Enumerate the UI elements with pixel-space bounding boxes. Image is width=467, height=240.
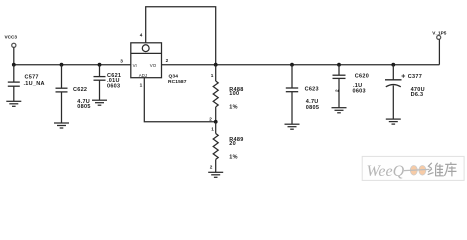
svg-text:20: 20	[229, 141, 236, 147]
capacitor C621	[94, 65, 106, 100]
wire input rail	[14, 64, 131, 66]
node junction at C377	[391, 63, 395, 67]
svg-text:ADJ: ADJ	[139, 73, 147, 78]
svg-text:1: 1	[211, 126, 214, 131]
ground (C623)	[285, 124, 300, 129]
ground (R489)	[208, 172, 223, 177]
svg-text:1: 1	[211, 73, 214, 78]
node junction at C621	[98, 63, 102, 67]
ground (C622)	[54, 123, 69, 128]
C377 plus sign	[402, 74, 406, 78]
op-amp/regulator Q34 RC1587	[131, 43, 162, 78]
svg-text:Q34: Q34	[169, 74, 179, 80]
ground (C377)	[386, 119, 401, 124]
ground (C621)	[92, 100, 107, 105]
node junction at C577	[12, 63, 16, 67]
C623 value labels	[305, 87, 320, 112]
svg-text:C623: C623	[305, 87, 319, 93]
power terminal V_1P5	[437, 35, 441, 64]
svg-text:VI: VI	[133, 63, 137, 68]
Q34 ref labels	[168, 74, 187, 85]
watermark Q tail strike line	[404, 169, 430, 170]
power terminal VCC3	[12, 43, 16, 64]
watermark oo dots	[410, 166, 417, 176]
svg-text:0603: 0603	[353, 89, 366, 95]
svg-text:3: 3	[120, 58, 123, 63]
R488 value labels	[229, 87, 243, 111]
capacitor C620	[333, 65, 346, 108]
capacitor C623	[286, 65, 298, 124]
svg-text:2: 2	[334, 89, 339, 92]
svg-text:1%: 1%	[229, 155, 238, 161]
Q34 pin names	[133, 63, 157, 78]
svg-text:2: 2	[210, 165, 213, 170]
wire tab loop (pin4 to output node)	[146, 7, 216, 65]
svg-text:2: 2	[166, 58, 169, 63]
wire output rail	[162, 64, 440, 66]
capacitor C622	[56, 65, 68, 123]
wire ADJ to divider	[144, 78, 215, 122]
C577 value labels	[24, 74, 45, 87]
capacitor C577	[8, 65, 20, 102]
svg-text:100: 100	[229, 91, 239, 97]
ground (C577)	[6, 101, 21, 106]
C622 value labels	[73, 87, 91, 110]
node junction at C623	[290, 63, 294, 67]
node junction at C622	[60, 63, 64, 67]
svg-text:WeeQ: WeeQ	[367, 163, 405, 180]
watermark WeeQoo box	[362, 156, 464, 180]
resistor R488	[213, 65, 218, 122]
svg-text:C622: C622	[73, 87, 87, 93]
svg-text:0603: 0603	[107, 83, 120, 89]
svg-text:C620: C620	[355, 74, 369, 80]
svg-text:V_1P5: V_1P5	[432, 30, 446, 35]
svg-text:2: 2	[209, 116, 212, 121]
svg-text:C377: C377	[408, 74, 422, 80]
svg-text:RC1587: RC1587	[168, 79, 187, 85]
svg-text:C577: C577	[25, 74, 39, 80]
capacitor C377 (polarized)	[385, 65, 402, 119]
svg-text:D6.3: D6.3	[411, 92, 424, 98]
ground (C620)	[332, 108, 347, 113]
watermark 库 glyph	[444, 162, 456, 176]
C621 value labels	[107, 73, 121, 89]
svg-text:0805: 0805	[77, 104, 90, 110]
C377 value labels	[408, 74, 425, 98]
resistor R489	[213, 122, 218, 172]
svg-text:1%: 1%	[229, 105, 238, 111]
node junction ADJ/R488/R489	[214, 120, 218, 124]
svg-text:0805: 0805	[306, 105, 319, 111]
svg-text:VO: VO	[150, 63, 157, 68]
node junction at C620	[337, 63, 341, 67]
svg-text:.1U_NA: .1U_NA	[24, 81, 45, 87]
C620 value labels	[353, 74, 370, 95]
R489 value labels	[229, 137, 243, 161]
svg-text:4: 4	[140, 33, 143, 38]
watermark 维 glyph	[428, 163, 444, 176]
svg-text:VCC3: VCC3	[5, 35, 18, 40]
node junction output/R488	[214, 63, 218, 67]
svg-text:1: 1	[140, 83, 143, 88]
